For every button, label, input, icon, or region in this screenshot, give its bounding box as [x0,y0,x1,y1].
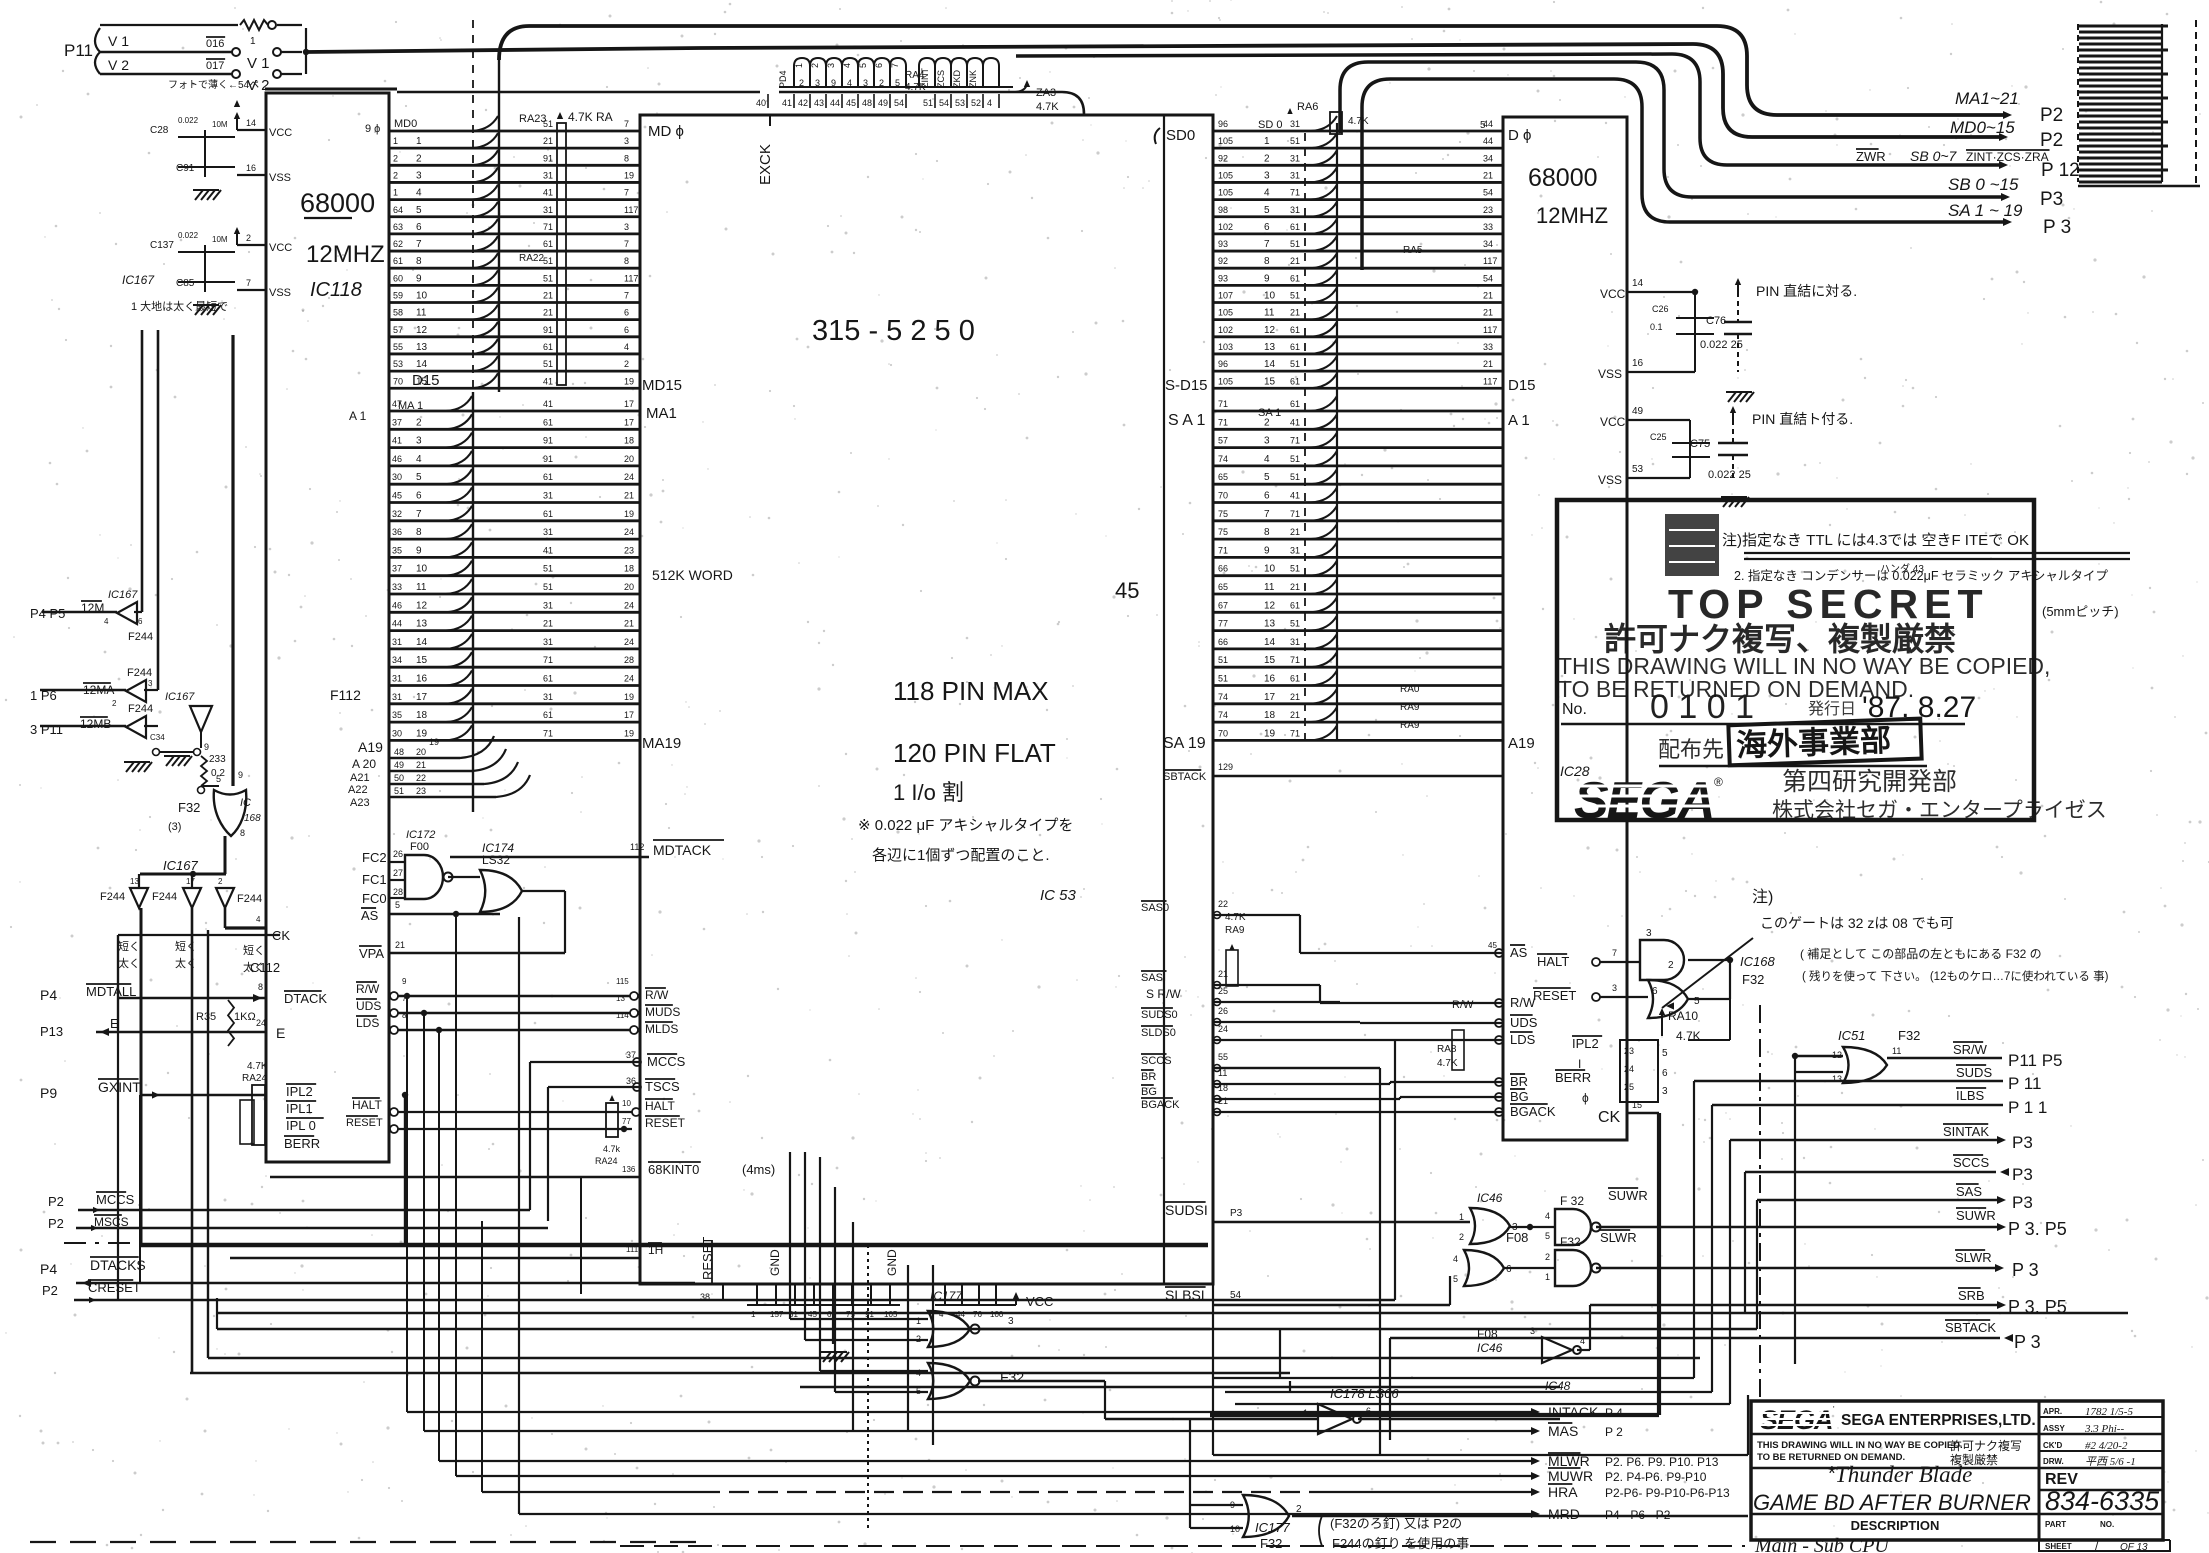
svg-text:31: 31 [543,600,553,610]
svg-text:VPA: VPA [359,946,384,961]
svg-text:6: 6 [416,491,422,502]
svg-text:13: 13 [416,342,428,353]
svg-text:F112: F112 [330,687,361,703]
svg-text:19: 19 [624,376,634,386]
svg-text:E: E [276,1025,285,1041]
svg-text:RA9: RA9 [1400,720,1420,731]
svg-text:短く: 短く [243,943,265,957]
svg-text:19: 19 [429,737,439,747]
svg-text:21: 21 [1290,256,1300,266]
svg-text:77: 77 [1218,619,1228,629]
svg-text:FC0: FC0 [362,891,387,906]
svg-text:APR.: APR. [2043,1407,2062,1416]
svg-text:A23: A23 [350,797,370,809]
svg-text:7: 7 [890,63,900,68]
svg-text:SA 1 ~ 19: SA 1 ~ 19 [1948,201,2023,220]
svg-text:51: 51 [1290,619,1300,629]
svg-text:IC 53: IC 53 [1040,887,1077,904]
svg-text:4: 4 [1264,188,1270,199]
svg-text:46: 46 [392,600,402,610]
svg-text:34: 34 [1483,153,1493,163]
svg-text:30: 30 [392,472,402,482]
svg-text:3: 3 [1612,983,1617,993]
svg-text:配布先: 配布先 [1658,737,1724,762]
svg-text:5: 5 [1545,1231,1550,1241]
svg-text:HALT: HALT [645,1099,675,1113]
svg-text:RA8: RA8 [1437,1044,1457,1055]
svg-text:49: 49 [1632,406,1644,417]
svg-text:P3: P3 [2012,1133,2033,1152]
svg-text:P 3. P5: P 3. P5 [2008,1219,2067,1239]
svg-text:4.7K: 4.7K [247,1061,268,1072]
svg-text:3: 3 [815,78,820,88]
svg-text:P 11: P 11 [2008,1074,2041,1093]
svg-text:74: 74 [1218,710,1228,720]
svg-text:R/W: R/W [1452,999,1474,1011]
svg-text:SUWR: SUWR [1956,1208,1996,1223]
svg-text:P13: P13 [40,1024,63,1039]
svg-text:R/W: R/W [356,982,380,996]
svg-text:F32: F32 [1898,1028,1920,1043]
svg-text:IC46: IC46 [1477,1191,1503,1205]
svg-text:PD4: PD4 [778,70,788,88]
svg-text:SD0: SD0 [1166,127,1195,144]
svg-text:ZCS: ZCS [936,70,946,88]
svg-text:33: 33 [1483,342,1493,352]
svg-text:34: 34 [1483,239,1493,249]
svg-text:23: 23 [624,545,634,555]
svg-text:0.022 25: 0.022 25 [1700,339,1743,351]
svg-text:SUDSI: SUDSI [1165,1202,1208,1218]
svg-text:51: 51 [1290,564,1300,574]
svg-text:26: 26 [1218,1006,1228,1016]
svg-text:117: 117 [624,205,638,215]
svg-text:8: 8 [240,828,245,838]
svg-text:4: 4 [624,342,629,352]
svg-text:IC167: IC167 [165,691,195,703]
svg-text:54: 54 [1230,1290,1242,1301]
svg-text:2: 2 [393,170,398,180]
svg-text:P11: P11 [64,41,93,60]
svg-text:136: 136 [622,1165,636,1174]
svg-text:41: 41 [543,545,553,555]
svg-text:注)指定なき TTL には4.3では 空きF ITEで OK: 注)指定なき TTL には4.3では 空きF ITEで OK [1722,532,2029,549]
svg-text:512K WORD: 512K WORD [652,567,733,583]
svg-text:SUDS0: SUDS0 [1141,1009,1178,1021]
svg-text:RA9: RA9 [1400,702,1420,713]
svg-text:BGACK: BGACK [1141,1099,1180,1111]
svg-text:SA 19: SA 19 [1163,735,1206,752]
svg-text:1KΩ: 1KΩ [234,1011,256,1023]
svg-text:AS: AS [1510,945,1528,960]
svg-text:31: 31 [543,205,553,215]
svg-text:33: 33 [392,582,402,592]
svg-text:65: 65 [1218,472,1228,482]
svg-text:8: 8 [416,256,422,267]
svg-text:P3: P3 [2040,189,2063,210]
svg-text:IPL2: IPL2 [1572,1036,1599,1051]
svg-text:VCC: VCC [1600,287,1626,301]
svg-text:96: 96 [1218,119,1228,129]
svg-text:MA19: MA19 [642,735,681,752]
svg-text:MA1~21: MA1~21 [1955,89,2019,108]
svg-text:1: 1 [250,36,256,47]
svg-text:21: 21 [543,136,553,146]
svg-text:MDTACK: MDTACK [653,842,712,858]
svg-text:P 2: P 2 [1605,1425,1623,1439]
svg-text:129: 129 [1218,762,1233,772]
svg-text:R35: R35 [196,1011,216,1023]
svg-text:SRB: SRB [1958,1288,1985,1303]
svg-text:MLDS: MLDS [645,1022,678,1036]
svg-text:59: 59 [393,291,403,301]
svg-text:5: 5 [1694,996,1700,1007]
svg-text:MCCS: MCCS [647,1054,686,1069]
svg-text:51: 51 [1290,359,1300,369]
svg-text:66: 66 [1218,564,1228,574]
svg-text:91: 91 [543,325,553,335]
svg-text:(5mmピッチ): (5mmピッチ) [2042,604,2119,619]
svg-text:115: 115 [616,977,629,986]
svg-text:13: 13 [416,619,428,630]
svg-text:IC46: IC46 [1477,1341,1503,1355]
svg-text:21: 21 [624,491,634,501]
svg-text:SBTACK: SBTACK [1163,771,1207,783]
svg-text:55: 55 [1218,1052,1228,1062]
svg-text:IC177: IC177 [1255,1520,1290,1535]
svg-text:PIN 直結に対る.: PIN 直結に対る. [1756,283,1857,299]
svg-text:P2. P4-P6. P9-P10: P2. P4-P6. P9-P10 [1605,1470,1707,1484]
svg-text:42: 42 [798,98,808,108]
svg-text:10M: 10M [212,235,228,244]
svg-text:F244の釘り を使用の事: F244の釘り を使用の事 [1332,1536,1469,1551]
svg-text:61: 61 [393,256,403,266]
svg-text:4: 4 [256,915,261,924]
svg-text:RA24: RA24 [595,1156,618,1166]
svg-text:51: 51 [543,564,553,574]
svg-text:F244: F244 [100,891,125,903]
svg-text:46: 46 [392,454,402,464]
svg-text:4: 4 [1264,454,1270,465]
svg-text:許可ナク複写、複製厳禁: 許可ナク複写、複製厳禁 [1604,621,1956,657]
svg-text:24: 24 [624,674,634,684]
svg-text:C75: C75 [1690,438,1710,450]
svg-text:C26: C26 [1652,304,1669,314]
svg-text:24: 24 [624,527,634,537]
svg-text:BGACK: BGACK [1510,1104,1556,1119]
svg-text:52: 52 [971,98,981,108]
svg-text:THIS DRAWING WILL IN NO WAY BE: THIS DRAWING WILL IN NO WAY BE COPIED. [1757,1440,1963,1451]
svg-text:51: 51 [1218,655,1228,665]
svg-text:発行日: 発行日 [1808,700,1856,718]
svg-text:21: 21 [543,291,553,301]
svg-text:BR: BR [1510,1074,1528,1089]
svg-text:IPL 0: IPL 0 [286,1118,316,1133]
svg-text:P2-P6- P9-P10-P6-P13: P2-P6- P9-P10-P6-P13 [1605,1486,1730,1500]
svg-text:MD0~15: MD0~15 [1950,118,2015,137]
svg-text:75: 75 [1218,509,1228,519]
svg-text:VSS: VSS [269,287,291,299]
svg-text:70: 70 [1218,491,1228,501]
svg-text:21: 21 [1483,291,1493,301]
svg-text:P4 P5: P4 P5 [30,606,65,621]
svg-text:61: 61 [1290,376,1300,386]
svg-text:120 PIN FLAT: 120 PIN FLAT [893,738,1056,768]
svg-text:315 - 5 2 5 0: 315 - 5 2 5 0 [812,315,975,347]
svg-text:5: 5 [1264,472,1270,483]
svg-text:A21: A21 [350,772,370,784]
svg-text:6: 6 [1506,1264,1512,1275]
svg-text:2: 2 [218,877,223,886]
svg-text:AS: AS [361,908,379,923]
svg-text:61: 61 [1290,399,1300,409]
svg-text:8: 8 [1264,256,1270,267]
svg-text:49: 49 [394,760,404,770]
svg-text:28: 28 [624,655,634,665]
svg-text:68000: 68000 [300,188,375,218]
svg-text:7: 7 [1264,509,1270,520]
svg-text:BERR: BERR [284,1136,320,1151]
svg-text:F32: F32 [1560,1235,1581,1249]
svg-text:71: 71 [1290,728,1300,738]
svg-text:A 1: A 1 [349,409,367,423]
svg-text:91: 91 [865,1310,874,1319]
svg-text:44: 44 [830,98,840,108]
svg-text:19: 19 [624,509,634,519]
svg-text:VSS: VSS [269,172,291,184]
svg-text:株式会社セガ・エンタープライゼス: 株式会社セガ・エンタープライゼス [1772,799,2107,822]
svg-text:18: 18 [624,564,634,574]
svg-text:3: 3 [1008,1316,1014,1327]
svg-text:61: 61 [1290,674,1300,684]
svg-text:SUWR: SUWR [1608,1188,1648,1203]
svg-text:F 32: F 32 [1560,1194,1584,1208]
svg-text:太く: 太く [118,957,140,970]
svg-text:24: 24 [256,1018,266,1028]
svg-text:P4: P4 [40,987,57,1003]
svg-text:53: 53 [393,359,403,369]
svg-text:P11 P5: P11 P5 [2008,1051,2063,1070]
svg-text:注): 注) [1752,888,1773,906]
svg-text:45: 45 [846,98,856,108]
svg-text:31: 31 [543,491,553,501]
svg-text:EXCK: EXCK [757,144,774,185]
svg-text:1: 1 [393,188,398,198]
svg-text:105: 105 [1218,188,1233,198]
svg-text:4.7K: 4.7K [1348,116,1369,127]
svg-text:71: 71 [1218,417,1228,427]
svg-text:54: 54 [1483,188,1493,198]
svg-text:9: 9 [1264,273,1270,284]
svg-text:21: 21 [1290,582,1300,592]
svg-text:INTACK: INTACK [1548,1404,1599,1420]
svg-text:VCC: VCC [269,127,292,139]
svg-text:3: 3 [1530,1326,1535,1336]
svg-text:3: 3 [624,222,629,232]
svg-text:50: 50 [394,773,404,783]
svg-text:63: 63 [393,222,403,232]
svg-text:A 20: A 20 [352,757,376,771]
svg-text:IC167: IC167 [108,589,138,601]
svg-text:SB 0 ~15: SB 0 ~15 [1948,175,2019,194]
svg-text:61: 61 [1290,342,1300,352]
svg-text:77: 77 [622,1117,631,1126]
svg-text:31: 31 [543,637,553,647]
svg-text:10: 10 [1264,564,1276,575]
svg-text:F32: F32 [1260,1536,1282,1551]
svg-text:V 1: V 1 [108,33,129,49]
svg-text:LDS: LDS [356,1016,379,1030]
svg-text:SASI: SASI [1141,972,1166,984]
svg-text:VSS: VSS [1598,367,1622,381]
svg-text:100: 100 [990,1310,1004,1319]
svg-text:太く: 太く [175,957,197,970]
svg-text:1: 1 [1545,1272,1550,1282]
svg-text:53: 53 [955,98,965,108]
svg-text:21: 21 [1483,170,1493,180]
svg-text:017: 017 [206,60,224,72]
svg-text:RA6: RA6 [1297,101,1318,113]
svg-text:37: 37 [392,564,402,574]
svg-text:#2 4/20-2: #2 4/20-2 [2085,1440,2128,1452]
svg-text:2: 2 [1459,1232,1464,1242]
svg-text:12MHZ: 12MHZ [1536,203,1608,228]
svg-text:51: 51 [1218,674,1228,684]
svg-text:15: 15 [1264,376,1276,387]
svg-text:8: 8 [258,982,263,992]
svg-text:HALT: HALT [352,1098,382,1112]
svg-text:D15: D15 [412,372,440,389]
svg-text:5: 5 [1453,1274,1458,1284]
svg-text:RA24: RA24 [242,1073,267,1084]
svg-text:25: 25 [1624,1082,1634,1092]
svg-text:P 3: P 3 [2012,1260,2039,1280]
svg-text:34: 34 [392,655,402,665]
svg-text:51: 51 [543,273,553,283]
svg-text:17: 17 [1264,692,1276,703]
svg-text:ZNK: ZNK [968,70,978,88]
svg-text:13: 13 [1832,1074,1842,1084]
svg-text:SLBSI: SLBSI [1165,1287,1205,1303]
svg-text:45: 45 [1488,941,1497,950]
svg-text:5: 5 [416,472,422,483]
svg-text:12: 12 [1264,600,1276,611]
svg-text:16: 16 [246,163,256,173]
svg-text:3: 3 [1646,928,1652,939]
svg-text:7: 7 [624,239,629,249]
svg-text:45: 45 [1115,578,1139,603]
svg-text:0.022 25: 0.022 25 [1708,469,1751,481]
svg-text:SBTACK: SBTACK [1945,1320,1996,1335]
svg-text:5: 5 [1662,1048,1668,1059]
svg-text:31: 31 [392,692,402,702]
svg-text:51: 51 [1290,472,1300,482]
svg-text:( 残りを使って 下さい。 (12ものケロ…7に使われている: ( 残りを使って 下さい。 (12ものケロ…7に使われている 事) [1802,969,2109,983]
svg-text:6: 6 [1366,1406,1371,1416]
svg-text:3: 3 [416,170,422,181]
svg-text:3: 3 [1264,170,1270,181]
svg-text:DRW.: DRW. [2043,1457,2064,1466]
svg-text:98: 98 [1218,205,1228,215]
svg-text:6: 6 [1264,491,1270,502]
svg-text:14: 14 [416,359,428,370]
svg-text:IPL1: IPL1 [286,1101,313,1116]
svg-text:4.7K: 4.7K [1437,1058,1458,1069]
svg-text:45: 45 [392,491,402,501]
svg-text:平西 5/6 -1: 平西 5/6 -1 [2085,1456,2136,1468]
svg-text:SB 0~7: SB 0~7 [1910,148,1958,164]
svg-text:117: 117 [1483,376,1497,386]
svg-text:12: 12 [416,325,428,336]
svg-text:SCCS: SCCS [1141,1055,1172,1067]
svg-text:3: 3 [1264,436,1270,447]
svg-text:37: 37 [392,417,402,427]
svg-text:D15: D15 [1508,377,1536,394]
svg-text:1 I/o 割: 1 I/o 割 [893,780,964,805]
svg-text:105: 105 [1218,136,1233,146]
svg-text:ILBS: ILBS [1956,1088,1985,1103]
svg-text:19: 19 [624,728,634,738]
svg-text:31: 31 [392,637,402,647]
svg-text:3: 3 [416,436,422,447]
svg-text:51: 51 [543,582,553,592]
svg-text:9: 9 [416,545,422,556]
svg-text:14: 14 [246,118,256,128]
svg-text:4: 4 [1545,1211,1550,1221]
svg-text:8: 8 [1264,527,1270,538]
svg-text:BG: BG [1510,1089,1529,1104]
svg-text:6: 6 [624,325,629,335]
svg-text:P 3: P 3 [2014,1332,2041,1352]
svg-text:91: 91 [543,153,553,163]
svg-text:31: 31 [543,527,553,537]
svg-text:21: 21 [1483,359,1493,369]
svg-text:5: 5 [858,63,868,68]
svg-text:SLDS0: SLDS0 [1141,1027,1176,1039]
svg-text:7: 7 [624,291,629,301]
svg-text:27: 27 [393,868,403,878]
svg-text:20: 20 [624,454,634,464]
svg-text:19: 19 [624,170,634,180]
svg-text:2: 2 [1264,417,1270,428]
svg-text:36: 36 [392,527,402,537]
svg-text:SHEET: SHEET [2045,1542,2072,1551]
svg-text:2: 2 [810,63,820,68]
svg-text:(F32のろ釘) 又は P2の: (F32のろ釘) 又は P2の [1330,1516,1462,1531]
svg-text:51: 51 [543,359,553,369]
svg-text:70: 70 [1218,728,1228,738]
svg-text:31: 31 [392,674,402,684]
svg-text:105: 105 [884,1310,898,1319]
svg-text:RA9: RA9 [1225,925,1245,936]
svg-text:MUWR: MUWR [1548,1468,1593,1484]
svg-text:118 PIN MAX: 118 PIN MAX [893,676,1049,706]
svg-text:FC2: FC2 [362,850,387,865]
svg-text:RA22: RA22 [519,253,544,264]
svg-text:NO.: NO. [2100,1520,2114,1529]
svg-text:IC174: IC174 [482,841,514,855]
svg-text:9: 9 [416,273,422,284]
svg-text:7: 7 [1264,239,1270,250]
svg-text:4.7K: 4.7K [1676,1029,1701,1043]
svg-text:各辺に1個ずつ配置のこと.: 各辺に1個ずつ配置のこと. [872,847,1050,864]
svg-text:6: 6 [416,222,422,233]
svg-text:1: 1 [916,1316,921,1326]
svg-text:A 1: A 1 [1508,412,1530,429]
svg-text:SCCS: SCCS [1953,1155,1989,1170]
svg-text:HRA: HRA [1548,1484,1578,1500]
svg-text:117: 117 [1483,325,1497,335]
